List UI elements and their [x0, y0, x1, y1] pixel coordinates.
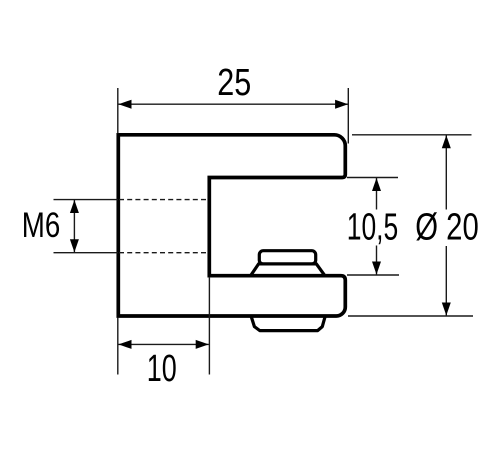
svg-text:M6: M6 — [22, 206, 61, 245]
dimension line 10 — [118, 343, 209, 345]
extension line: slot left edge down (for 10) — [208, 277, 210, 375]
dimension line 25 — [118, 103, 348, 105]
extension line: M6 top — [54, 199, 119, 201]
screw pad base (trapezoid on slot floor) — [251, 264, 325, 276]
arrowhead left of dim 25 — [119, 100, 132, 109]
extension line: slot top right (for 10,5) — [347, 177, 398, 179]
arrowhead down M6 — [70, 239, 79, 252]
arrowhead right of dim 10 — [196, 340, 209, 349]
arrowhead up diameter 20 — [442, 135, 451, 148]
svg-text:Ø 20: Ø 20 — [415, 207, 479, 249]
arrowhead left of dim 10 — [119, 340, 132, 349]
dimension line M6 (vertical double arrow) — [73, 200, 75, 252]
arrowhead down diameter 20 — [442, 303, 451, 316]
extension line: slot bottom right (for 10,5) — [347, 274, 399, 276]
clamp body outline (C-shape) — [118, 135, 345, 316]
extension line: body left down (for 10) — [117, 318, 119, 375]
svg-text:10,5: 10,5 — [347, 207, 399, 249]
dimension line 10,5 lower segment — [376, 246, 378, 275]
extension line: body top right (for diameter 20) — [352, 134, 472, 136]
extension line: body left edge up (for 25) — [117, 88, 119, 134]
screw pad cap (inside slot) — [259, 251, 315, 264]
dashed hidden line: M6 thread bottom — [119, 252, 209, 254]
arrowhead down 10,5 — [372, 262, 381, 275]
dashed hidden line: M6 thread top — [119, 199, 209, 201]
extension line: body right side up (for 25) — [347, 88, 349, 144]
dimension line diameter 20 lower segment — [445, 246, 447, 316]
arrowhead right of dim 25 — [335, 100, 348, 109]
svg-text:25: 25 — [217, 62, 251, 104]
dimension line 10,5 upper segment — [376, 178, 378, 210]
arrowhead up 10,5 — [372, 178, 381, 191]
dimension line diameter 20 upper segment — [445, 135, 447, 209]
lower screw pad (below body) — [251, 316, 326, 331]
svg-text:10: 10 — [147, 348, 177, 390]
arrowhead up M6 — [70, 200, 79, 213]
extension line: body bottom right (for diameter 20) — [348, 315, 473, 317]
extension line: M6 bottom — [54, 252, 119, 254]
